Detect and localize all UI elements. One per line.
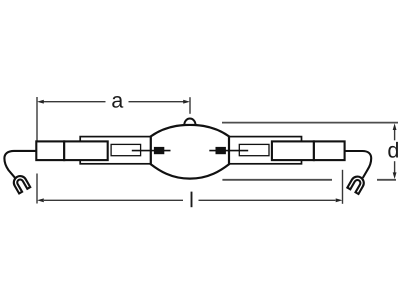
extension line lamp center: [189, 97, 191, 114]
dimension a left arrow: [37, 100, 44, 104]
exhaust nipple: [184, 119, 195, 125]
electrode lead left: [132, 150, 171, 152]
molybdenum foil left: [111, 144, 141, 155]
electrode right: [216, 147, 226, 154]
dimension a line right segment: [129, 101, 184, 103]
dimension l line right segment: [199, 199, 336, 201]
dimension l label: [191, 192, 193, 208]
reference line d bottom left segment: [222, 179, 332, 181]
pinch seal left: [80, 137, 151, 164]
bulb envelope: [151, 125, 229, 179]
fork lug right: [347, 174, 366, 194]
dimension a label: [112, 96, 123, 108]
pinch seal right: [229, 137, 302, 164]
dimension d line lower segment: [394, 161, 396, 173]
electrode left: [154, 147, 164, 154]
cable left: [4, 151, 36, 178]
molybdenum foil right: [239, 144, 269, 155]
dimension d label: [388, 142, 398, 158]
ceramic sleeve right outer: [314, 141, 345, 160]
extension line left upper: [36, 97, 38, 141]
ceramic sleeve left inner: [64, 141, 108, 160]
dimension a line left segment: [44, 101, 106, 103]
dimension a right arrow: [183, 100, 190, 104]
extension line right: [342, 170, 344, 204]
fork lug left: [11, 174, 30, 194]
dimension l left arrow: [37, 198, 44, 202]
ceramic sleeve right inner: [272, 141, 314, 160]
dimension d top arrow: [393, 123, 397, 130]
dimension l line left segment: [44, 199, 183, 201]
reference line d bottom right segment: [377, 179, 396, 181]
extension line left lower: [36, 174, 38, 204]
dimension l right arrow: [336, 198, 343, 202]
ceramic sleeve left outer: [36, 141, 64, 160]
dimension d bottom arrow: [393, 172, 397, 179]
electrode lead right: [209, 150, 248, 152]
dimension d line upper segment: [394, 129, 396, 141]
reference line d top: [222, 122, 398, 124]
cable right: [345, 151, 372, 178]
